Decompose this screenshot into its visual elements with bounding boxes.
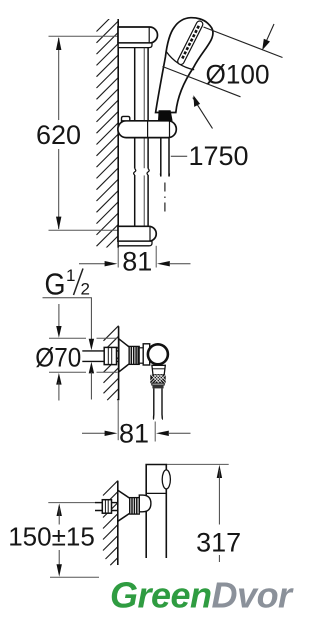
- escutcheon (bottom view): [118, 490, 130, 521]
- leader line 1750: [171, 155, 187, 157]
- svg-text:620: 620: [36, 120, 81, 150]
- supply tube behind wall: [82, 350, 118, 352]
- O70 lower arrow and line: [56, 373, 61, 385]
- knurled hose nut (dark): [150, 375, 165, 383]
- rail break symbol: [134, 169, 136, 175]
- knurled collar: [129, 346, 139, 364]
- wall hatching (middle view): [104, 326, 119, 400]
- hand shower face plate: [177, 20, 204, 66]
- ring: [139, 348, 143, 363]
- bottom wall bracket: [118, 226, 156, 241]
- dimension O70 upper line and arrow: [58, 304, 60, 329]
- ball joint: [148, 344, 168, 364]
- hand shower handle: [156, 18, 213, 113]
- top wall bracket: [118, 27, 158, 43]
- wall line (top view): [117, 19, 119, 248]
- dimension 317 line with arrow: [217, 465, 222, 478]
- slider knob: [122, 116, 130, 120]
- svg-text:1: 1: [66, 266, 75, 285]
- SECTION: top view: [36, 10, 283, 277]
- supply tube / 150 extension line: [48, 502, 118, 504]
- dimension 81 (top) arrows: [79, 263, 105, 265]
- wall hatching (bottom view): [103, 481, 118, 566]
- svg-text:G: G: [45, 267, 66, 302]
- knurled collar (bottom view): [130, 498, 140, 514]
- hose centerline dash-dot: [164, 183, 166, 212]
- svg-text:Ø100: Ø100: [206, 60, 270, 90]
- rail tube: [134, 48, 136, 169]
- supply nut (bottom view): [102, 500, 111, 514]
- wall line (middle view): [118, 326, 120, 400]
- dimension 150 bottom extension line: [50, 576, 99, 578]
- handle end cone (black): [158, 110, 173, 121]
- slider holder barrel: [118, 121, 176, 138]
- outlet ellipse on pipe: [162, 470, 170, 489]
- dimension 317 extension line: [166, 463, 228, 465]
- top bracket flange: [118, 43, 152, 48]
- dimension 81 (top) extension lines: [117, 248, 119, 268]
- dimension 620 extension lines: [49, 35, 118, 37]
- bottom bracket flange: [118, 241, 152, 246]
- svg-text:GreenDvor: GreenDvor: [110, 575, 294, 616]
- SECTION: middle view: [35, 266, 190, 449]
- dimension O100 arrows: [263, 24, 274, 48]
- hose (middle view): [154, 388, 163, 419]
- escutcheon (middle view): [119, 339, 129, 372]
- svg-text:81: 81: [122, 247, 152, 277]
- dimension 620 line with arrows: [58, 38, 60, 120]
- svg-text:81: 81: [119, 419, 149, 449]
- SECTION: bottom view: [8, 464, 241, 577]
- small ring below nut: [152, 383, 164, 385]
- svg-text:150±15: 150±15: [8, 522, 95, 552]
- elbow boss: [139, 495, 151, 512]
- svg-text:2: 2: [81, 280, 90, 299]
- G 1/2 leader line with arrows: [43, 298, 92, 341]
- shower pipe (bottom view): [146, 465, 166, 559]
- svg-text:Ø70: Ø70: [35, 343, 81, 373]
- SECTION: logo: [110, 575, 294, 616]
- svg-text:317: 317: [196, 528, 241, 558]
- dimension O100 extension lines: [204, 27, 283, 58]
- hose from handle: [161, 121, 169, 177]
- hand shower head lower rim: [166, 52, 194, 70]
- outlet neck below ball: [152, 365, 165, 375]
- wall line (bottom view): [117, 481, 119, 565]
- svg-text:1750: 1750: [188, 141, 248, 171]
- dimension 81 (middle) extension lines: [117, 400, 119, 440]
- O70 extension lines: [49, 337, 86, 339]
- tube nut: [104, 347, 116, 364]
- pipe joint line: [146, 492, 166, 494]
- dimension 81 (middle) arrows: [82, 432, 105, 434]
- dimension 150+-15 line with arrows: [57, 503, 62, 516]
- ball joint cup: [143, 344, 150, 365]
- wall hatching (top view): [97, 10, 119, 253]
